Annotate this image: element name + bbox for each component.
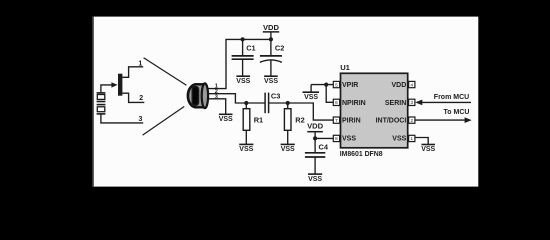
ground VSS at pin1	[422, 144, 436, 146]
pin 2 box	[409, 117, 415, 123]
svg-text:NPIRIN: NPIRIN	[342, 100, 366, 107]
svg-text:3: 3	[139, 116, 143, 123]
svg-text:2: 2	[139, 95, 143, 102]
svg-text:To MCU: To MCU	[444, 109, 470, 116]
svg-text:PIRIN: PIRIN	[342, 118, 361, 125]
svg-text:5: 5	[335, 82, 338, 87]
capacitor C1	[232, 39, 254, 75]
ground VSS under R1	[239, 143, 253, 145]
bottom electrode bar	[97, 113, 106, 115]
resistor R2	[284, 103, 291, 144]
channel bar	[118, 74, 122, 96]
sensor pin 3 wire to ground	[205, 99, 226, 114]
svg-text:VDD: VDD	[263, 23, 280, 32]
schematic white panel	[92, 17, 478, 187]
svg-text:VSS: VSS	[392, 136, 406, 143]
ground VSS under R2	[281, 143, 295, 145]
capacitor C2 (polarized)	[260, 39, 282, 75]
VDD net symbol (at C4)	[307, 132, 323, 153]
capacitor C4	[305, 153, 325, 174]
svg-text:R2: R2	[295, 116, 304, 125]
svg-text:C4: C4	[319, 143, 329, 152]
svg-text:VSS: VSS	[308, 176, 322, 183]
cone line bottom	[143, 107, 185, 136]
junction VPIR/NPIRIN	[324, 83, 328, 87]
wire: element bottom to pin3 lead	[101, 114, 143, 123]
svg-text:VSS: VSS	[342, 136, 356, 143]
junction R1	[244, 101, 248, 105]
svg-text:VSS: VSS	[219, 116, 233, 123]
svg-text:7: 7	[335, 118, 338, 123]
JFET transistor (sensor internal)	[118, 67, 144, 103]
svg-text:2: 2	[410, 118, 413, 123]
svg-text:VSS: VSS	[304, 94, 318, 101]
ground VSS under C4	[308, 173, 322, 175]
ground VSS under C1	[236, 75, 250, 77]
PIR sensor can (capsule)	[188, 83, 208, 108]
svg-text:VSS: VSS	[281, 146, 295, 153]
wire: INT/DOCI to MCU arrow	[415, 117, 472, 123]
svg-text:1: 1	[138, 60, 142, 67]
junction C1	[241, 37, 245, 41]
svg-text:INT/DOCI: INT/DOCI	[376, 118, 407, 125]
svg-text:U1: U1	[340, 63, 350, 72]
sensor pin 1 wire to supply riser	[205, 39, 271, 88]
wire: branch to NPIRIN pin6	[326, 85, 333, 103]
svg-text:1: 1	[410, 136, 413, 141]
junction R2	[286, 101, 290, 105]
pin 7 box	[333, 117, 339, 123]
sensor pin 2 wire to C3/R1 node	[205, 94, 265, 103]
wire: pin1 VSS to ground	[415, 138, 428, 145]
resistor R1	[243, 103, 250, 144]
svg-text:4: 4	[410, 82, 413, 87]
svg-text:SERIN: SERIN	[385, 100, 406, 107]
panel left border line	[92, 17, 94, 187]
svg-text:VDD: VDD	[392, 82, 407, 89]
wire: element top to JFET gate	[101, 85, 114, 93]
junction C2	[269, 37, 273, 41]
wire: SERIN from MCU arrow	[415, 100, 471, 106]
wire: VSS to VPIR pin5	[311, 84, 333, 86]
pin 1 box	[409, 135, 415, 141]
junction VDD/C4	[313, 136, 317, 140]
pin 8 box	[333, 135, 339, 141]
svg-text:VPIR: VPIR	[342, 82, 358, 89]
svg-text:VDD: VDD	[307, 122, 324, 131]
element box 2	[97, 107, 105, 112]
gate arrowhead	[111, 82, 117, 87]
svg-text:3: 3	[410, 100, 413, 105]
svg-text:8: 8	[335, 136, 338, 141]
pyroelectric dual sensing element (inside sensor)	[97, 93, 106, 114]
svg-text:R1: R1	[254, 116, 263, 125]
op IC U1 IM8601 body	[341, 73, 408, 148]
svg-text:VSS: VSS	[421, 146, 435, 153]
svg-text:6: 6	[335, 100, 338, 105]
svg-text:IM8601 DFN8: IM8601 DFN8	[340, 151, 383, 158]
svg-text:VSS: VSS	[236, 78, 250, 85]
top electrode bar	[97, 92, 106, 94]
svg-text:VSS: VSS	[239, 146, 253, 153]
drain lead	[122, 67, 143, 78]
element box 1	[97, 95, 105, 100]
svg-text:3: 3	[215, 94, 218, 100]
svg-text:C2: C2	[275, 44, 284, 53]
source lead	[122, 93, 144, 102]
ground VSS under C2	[264, 75, 278, 77]
svg-text:From MCU: From MCU	[434, 94, 469, 101]
pin 3 box	[409, 99, 415, 105]
pin 6 box	[333, 99, 339, 105]
ground VSS under sensor	[219, 113, 233, 115]
cone line top (can outline to internals)	[144, 58, 187, 85]
svg-text:C1: C1	[246, 44, 255, 53]
ground VSS at VPIR/NPIRIN	[303, 85, 320, 93]
capacitor C3	[265, 93, 269, 114]
pin 5 box	[333, 81, 339, 87]
middle electrode plates	[97, 101, 106, 103]
svg-text:VSS: VSS	[264, 78, 278, 85]
svg-text:C3: C3	[271, 91, 280, 100]
wire: VDD node to pin8	[315, 137, 333, 139]
pin 4 box	[409, 81, 415, 87]
wire: C3 to PIRIN	[269, 103, 334, 120]
VDD net symbol (top)	[263, 32, 279, 40]
